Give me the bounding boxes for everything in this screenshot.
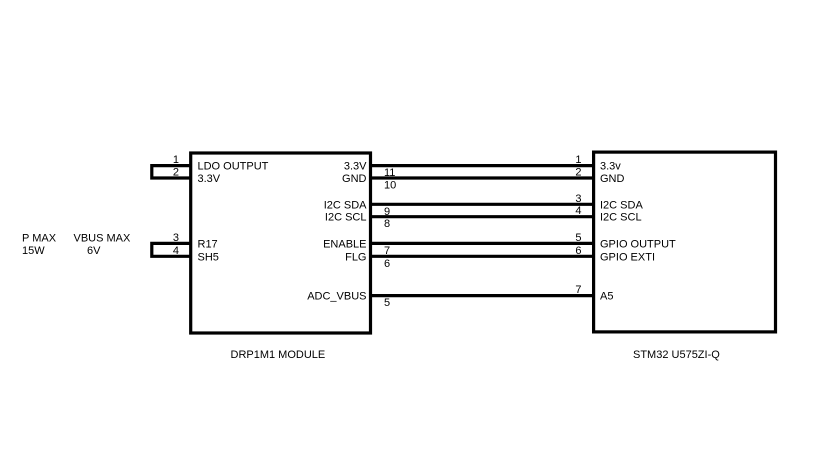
wire FLG net: U1 pin 6 to U2 pin 6 xyxy=(371,255,595,258)
svg-text:9: 9 xyxy=(384,206,390,218)
svg-text:I2C SCL: I2C SCL xyxy=(600,212,642,224)
pin number 6 (U1 FLG) xyxy=(384,258,390,270)
pin number 6 (U2 GPIO EXTI) xyxy=(575,245,581,257)
pin number 5 (U1 ADC_VBUS) xyxy=(384,297,390,309)
U1 pin name R17 (pin 3) xyxy=(198,238,218,250)
wire ENABLE net: U1 pin 7 to U2 pin 5 xyxy=(371,242,595,245)
wire jumper shorting U1 pin 1 to pin 2 xyxy=(152,166,191,178)
svg-text:6: 6 xyxy=(384,258,390,270)
pin number 8 (U1 I2C SCL) xyxy=(384,218,390,230)
svg-text:10: 10 xyxy=(384,180,396,192)
pin number 11 (U1 3.3V out) xyxy=(384,167,395,179)
pin number 3 (U2 I2C SDA) xyxy=(575,193,581,205)
pin number 3 (U1 R17) xyxy=(173,232,179,244)
U1 right pin name 3.3V (pin 11) xyxy=(344,161,367,173)
U2 pin name GPIO OUTPUT (pin 5) xyxy=(600,238,676,250)
U1 right pin name I2C SDA (pin 9) xyxy=(324,199,367,211)
pin number 5 (U2 GPIO OUTPUT) xyxy=(575,232,581,244)
svg-text:2: 2 xyxy=(575,167,581,179)
svg-text:4: 4 xyxy=(173,245,179,257)
svg-text:7: 7 xyxy=(575,284,581,296)
svg-text:3.3V: 3.3V xyxy=(198,173,221,185)
svg-text:15W: 15W xyxy=(22,245,45,257)
svg-text:STM32 U575ZI-Q: STM32 U575ZI-Q xyxy=(633,349,720,361)
label STM32 U575ZI-Q xyxy=(633,349,720,361)
svg-text:3.3V: 3.3V xyxy=(344,161,367,173)
svg-text:ADC_VBUS: ADC_VBUS xyxy=(307,291,366,303)
svg-text:LDO OUTPUT: LDO OUTPUT xyxy=(198,161,269,173)
svg-text:6V: 6V xyxy=(87,245,101,257)
svg-text:6: 6 xyxy=(575,245,581,257)
svg-text:A5: A5 xyxy=(600,291,613,303)
svg-text:I2C SDA: I2C SDA xyxy=(600,199,643,211)
U1 right pin name FLG (pin 6) xyxy=(345,251,366,263)
svg-text:GND: GND xyxy=(342,173,367,185)
svg-text:ENABLE: ENABLE xyxy=(323,238,366,250)
svg-text:GPIO EXTI: GPIO EXTI xyxy=(600,251,655,263)
label DRP1M1 MODULE xyxy=(231,349,326,361)
wire I2C SDA net: U1 pin 9 to U2 pin 3 xyxy=(371,203,595,206)
U1 right pin name GND (pin 10) xyxy=(342,173,367,185)
module U2 STM32 U575ZI-Q block outline xyxy=(594,152,776,332)
pin number 7 (U1 ENABLE) xyxy=(384,245,390,257)
wire jumper shorting U1 pin 3 to pin 4 xyxy=(152,243,191,256)
pin number 1 (U2 3.3v) xyxy=(575,154,581,166)
U1 pin name 3.3V (pin 2) xyxy=(198,173,221,185)
svg-text:FLG: FLG xyxy=(345,251,366,263)
svg-text:3.3v: 3.3v xyxy=(600,161,621,173)
wire 3.3V net: U1 pin 11 to U2 pin 1 xyxy=(371,164,595,167)
pin number 10 (U1 GND) xyxy=(384,180,396,192)
U1 right pin name I2C SCL (pin 8) xyxy=(325,212,367,224)
U1 pin name SH5 (pin 4) xyxy=(198,251,219,263)
U2 pin name GND (pin 2) xyxy=(600,173,625,185)
note VBUS MAX 6V xyxy=(74,232,132,257)
svg-text:DRP1M1 MODULE: DRP1M1 MODULE xyxy=(231,349,326,361)
pin number 4 (U2 I2C SCL) xyxy=(575,205,581,217)
pin number 1 (U1 LDO OUTPUT) xyxy=(173,154,179,166)
svg-text:VBUS MAX: VBUS MAX xyxy=(74,232,132,244)
wire GND net: U1 pin 10 to U2 pin 2 xyxy=(371,176,595,179)
svg-text:GPIO OUTPUT: GPIO OUTPUT xyxy=(600,238,676,250)
pin number 7 (U2 A5) xyxy=(575,284,581,296)
note P MAX 15W xyxy=(22,232,57,257)
svg-text:1: 1 xyxy=(575,154,581,166)
pin number 2 (U1 3.3V) xyxy=(173,167,179,179)
svg-text:I2C SCL: I2C SCL xyxy=(325,212,367,224)
svg-text:7: 7 xyxy=(384,245,390,257)
pin number 4 (U1 SH5) xyxy=(173,245,179,257)
svg-text:I2C SDA: I2C SDA xyxy=(324,199,367,211)
svg-text:4: 4 xyxy=(575,205,581,217)
svg-text:5: 5 xyxy=(384,297,390,309)
svg-text:P MAX: P MAX xyxy=(22,232,57,244)
U2 pin name I2C SDA (pin 3) xyxy=(600,199,643,211)
U2 pin name 3.3v (pin 1) xyxy=(600,161,621,173)
pin number 2 (U2 GND) xyxy=(575,167,581,179)
svg-text:5: 5 xyxy=(575,232,581,244)
U1 right pin name ADC_VBUS (pin 5) xyxy=(307,291,366,303)
U1 pin name LDO OUTPUT xyxy=(198,161,269,173)
module U1 DRP1M1 MODULE block outline xyxy=(191,153,371,333)
svg-text:GND: GND xyxy=(600,173,625,185)
svg-text:SH5: SH5 xyxy=(198,251,219,263)
svg-text:3: 3 xyxy=(173,232,179,244)
svg-text:3: 3 xyxy=(575,193,581,205)
wire ADC_VBUS net: U1 pin 5 to U2 pin 7 xyxy=(371,294,595,297)
U1 right pin name ENABLE (pin 7) xyxy=(323,238,366,250)
svg-text:8: 8 xyxy=(384,218,390,230)
U2 pin name GPIO EXTI (pin 6) xyxy=(600,251,655,263)
U2 pin name A5 (pin 7) xyxy=(600,291,613,303)
svg-text:11: 11 xyxy=(384,167,395,179)
pin number 9 (U1 I2C SDA) xyxy=(384,206,390,218)
U2 pin name I2C SCL (pin 4) xyxy=(600,212,642,224)
svg-text:2: 2 xyxy=(173,167,179,179)
svg-text:1: 1 xyxy=(173,154,179,166)
wire I2C SCL net: U1 pin 8 to U2 pin 4 xyxy=(371,215,595,218)
svg-text:R17: R17 xyxy=(198,238,218,250)
